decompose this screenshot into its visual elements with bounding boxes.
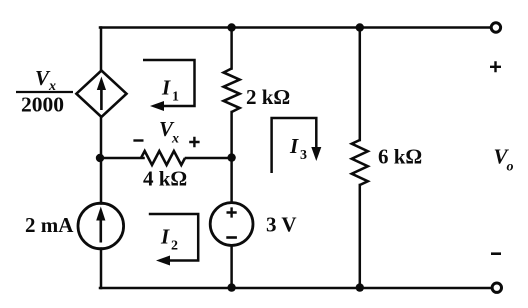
label Vx (across 4k)	[159, 117, 179, 147]
node: bottom rail / 3V branch junction	[227, 283, 235, 291]
wire right branch top (top rail to 6k resistor)	[359, 28, 362, 141]
wire left branch mid (dependent source to node A)	[100, 117, 103, 159]
wire left branch bottom (2mA source to bottom rail)	[100, 249, 103, 289]
label output minus terminal	[491, 252, 501, 255]
wire right branch bottom (6k resistor to bottom rail)	[359, 185, 362, 288]
label Vx/2000 (controlling value fraction)	[16, 66, 73, 117]
wire top rail	[100, 26, 491, 29]
label Vx polarity plus (right of 4k)	[189, 137, 199, 147]
label I1	[161, 76, 179, 105]
terminal bottom right (open circle)	[492, 283, 501, 292]
terminal top right (open circle)	[491, 23, 500, 32]
mesh current loop I2 (arrow hook)	[149, 214, 198, 266]
mesh current loop I1 (arrow hook)	[143, 60, 195, 111]
label output plus terminal	[490, 61, 501, 72]
label Vo (output voltage)	[494, 144, 514, 174]
label I2	[160, 225, 178, 254]
current source 2 mA (circle with up arrow)	[78, 203, 124, 249]
svg-text:1: 1	[172, 90, 179, 105]
wire middle branch (node B to 3V source)	[230, 158, 233, 203]
svg-text:3: 3	[300, 148, 307, 163]
wire middle branch top (top rail to 2k resistor)	[230, 28, 233, 69]
svg-text:2: 2	[171, 239, 178, 254]
resistor 2k ohm	[224, 69, 240, 112]
node A: left / 4k junction	[96, 154, 104, 162]
dependent current source Vx/2000 (diamond)	[76, 71, 126, 118]
node B: middle / 4k junction	[227, 153, 235, 161]
wire middle branch (2k resistor to node B)	[230, 112, 233, 158]
voltage source 3 V (circle with plus minus)	[210, 203, 253, 246]
svg-text:3 V: 3 V	[266, 213, 297, 237]
label I3	[289, 134, 307, 163]
svg-text:6 kΩ: 6 kΩ	[378, 145, 422, 169]
node: top rail / 2k branch junction	[227, 23, 235, 31]
resistor 6k ohm	[352, 140, 368, 185]
wire middle branch bottom (3V source to bottom rail)	[230, 246, 233, 289]
wire left branch top (node to dependent source)	[100, 28, 103, 72]
resistor 4k ohm	[141, 151, 185, 165]
svg-text:x: x	[171, 132, 179, 147]
svg-text:I: I	[160, 225, 170, 249]
wire middle horizontal (node A to 4k resistor)	[100, 157, 144, 160]
svg-text:o: o	[507, 160, 514, 175]
wire left branch (node A to 2mA source)	[100, 158, 103, 204]
svg-text:I: I	[289, 134, 299, 158]
svg-text:I: I	[161, 76, 171, 100]
svg-text:2 kΩ: 2 kΩ	[246, 85, 290, 109]
mesh current loop I3 (arrow hook)	[272, 118, 322, 173]
node: top rail / 6k branch junction	[356, 23, 364, 31]
node: bottom rail / 6k branch junction	[356, 283, 364, 291]
label Vx polarity minus (left of 4k)	[133, 139, 143, 141]
svg-text:2000: 2000	[21, 93, 64, 117]
wire bottom rail	[100, 287, 492, 290]
wire middle horizontal (4k resistor to node B)	[186, 157, 232, 160]
svg-text:2 mA: 2 mA	[25, 213, 74, 237]
svg-text:4 kΩ: 4 kΩ	[143, 167, 187, 191]
